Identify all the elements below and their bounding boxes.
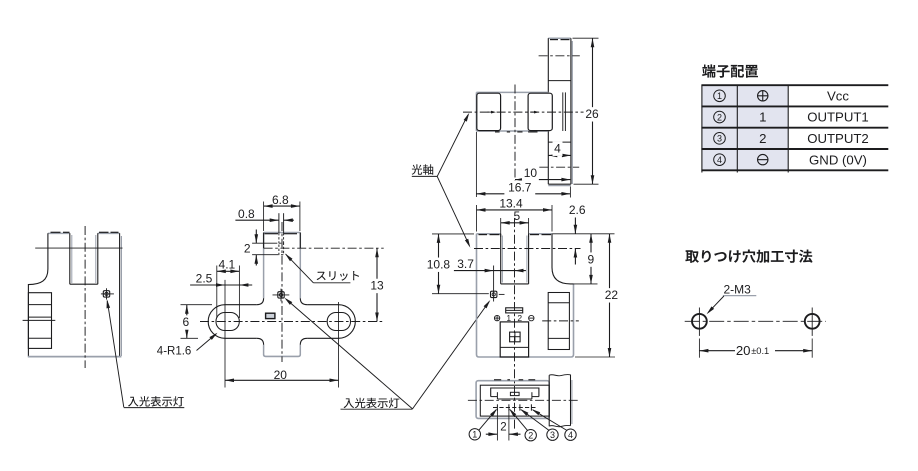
svg-text:OUTPUT1: OUTPUT1	[807, 110, 869, 125]
svg-text:26: 26	[585, 107, 599, 121]
svg-text:2: 2	[759, 131, 766, 146]
svg-text:4-R1.6: 4-R1.6	[157, 346, 192, 358]
svg-text:2.6: 2.6	[569, 203, 586, 217]
svg-text:20: 20	[736, 343, 751, 358]
svg-text:GND (0V): GND (0V)	[809, 152, 867, 167]
svg-text:±0.1: ±0.1	[751, 346, 769, 356]
svg-text:3: 3	[717, 134, 722, 144]
svg-text:3.7: 3.7	[457, 257, 474, 271]
svg-text:13: 13	[370, 279, 384, 293]
svg-text:4.1: 4.1	[219, 257, 236, 271]
svg-text:5: 5	[513, 209, 520, 223]
svg-text:Vcc: Vcc	[827, 88, 849, 103]
svg-text:4: 4	[568, 430, 573, 440]
svg-text:2: 2	[528, 430, 533, 440]
svg-text:16.7: 16.7	[508, 180, 532, 194]
svg-text:10: 10	[524, 166, 538, 180]
svg-text:1: 1	[472, 429, 477, 439]
svg-text:10.8: 10.8	[427, 257, 451, 271]
svg-text:9: 9	[587, 252, 594, 266]
svg-text:4: 4	[554, 141, 561, 155]
svg-text:6: 6	[182, 315, 189, 329]
svg-text:2.5: 2.5	[196, 272, 213, 286]
svg-text:4: 4	[717, 155, 722, 165]
svg-text:20: 20	[274, 368, 288, 382]
svg-text:6.8: 6.8	[272, 193, 289, 207]
svg-text:2: 2	[244, 242, 251, 256]
svg-text:2: 2	[500, 422, 506, 434]
svg-text:OUTPUT2: OUTPUT2	[807, 131, 869, 146]
svg-text:3: 3	[550, 430, 555, 440]
svg-text:0.8: 0.8	[238, 207, 255, 221]
svg-text:2-M3: 2-M3	[724, 283, 752, 297]
svg-text:1: 1	[759, 110, 766, 125]
svg-text:2: 2	[717, 112, 722, 122]
svg-text:22: 22	[605, 288, 619, 302]
svg-text:1: 1	[717, 91, 722, 101]
